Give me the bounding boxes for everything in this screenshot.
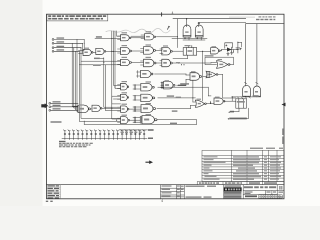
or gate G15 — [206, 71, 218, 78]
terminal pins — [63, 130, 145, 140]
number cells — [259, 195, 282, 198]
gate G20 — [141, 94, 155, 101]
label IN1 — [57, 37, 65, 38]
gate G22 — [92, 105, 102, 111]
wire can D lead — [256, 24, 258, 86]
faint pencil dash top — [229, 17, 255, 18]
diode cluster CR1 — [225, 43, 233, 52]
node G12 out — [205, 55, 214, 56]
capacitor can K1 — [183, 25, 191, 37]
wire G12 out — [205, 57, 234, 64]
wire speed signal — [247, 108, 249, 118]
wire G13 out — [155, 74, 191, 75]
wire G17 out long — [158, 87, 211, 96]
label L3 — [53, 108, 61, 109]
label +48V — [228, 111, 234, 113]
node G27 out — [210, 102, 211, 103]
wire bus verticals left — [72, 39, 120, 121]
relay top ticks — [237, 97, 250, 99]
label L1 — [53, 101, 61, 102]
gate G4 — [96, 48, 106, 54]
wire U1 feedback down — [173, 51, 203, 101]
node can leg 1 — [184, 38, 185, 39]
wire row A: G1 in — [95, 38, 121, 40]
gate G1 — [121, 35, 132, 41]
wire G2 out — [156, 19, 177, 48]
gate G8 — [211, 48, 221, 54]
gate G7 — [162, 47, 173, 54]
wire G28 out — [224, 97, 235, 101]
gate G24 — [141, 105, 156, 113]
gate G16 — [121, 84, 129, 90]
gate G13 — [141, 70, 154, 77]
node top rail junction — [186, 18, 187, 19]
or gate G12 — [217, 61, 231, 69]
label G24 out — [172, 110, 178, 111]
logo AMETEK dark box — [224, 187, 242, 191]
one-shot box U1 — [183, 46, 197, 56]
wire cans bottom rail — [232, 95, 260, 98]
label below strip right — [148, 138, 153, 140]
gate G10 — [144, 59, 157, 66]
ground sym 2 — [230, 52, 233, 55]
gate input stubs column1 — [118, 36, 121, 122]
wire G27 out — [206, 101, 214, 104]
tick can C lead — [245, 83, 247, 84]
logo sub rows — [224, 192, 241, 199]
number cell digits — [259, 196, 281, 198]
wire G26 out — [84, 120, 196, 125]
svg-text:4: 4 — [172, 11, 174, 15]
wire G23-G24 — [130, 106, 142, 111]
wire K1 top lead — [186, 19, 188, 27]
gate G5 — [121, 47, 132, 54]
title texts left section — [162, 185, 217, 197]
label L2 — [53, 105, 61, 106]
notes box text line 2 — [48, 18, 51, 20]
label row F b — [176, 97, 181, 98]
wire G6-G7 — [156, 49, 162, 51]
wire G21-G22 — [91, 108, 94, 110]
logo header dashes — [225, 185, 242, 187]
label IN2 — [57, 41, 65, 42]
label strip right — [148, 129, 154, 131]
right col vertical texts — [279, 186, 284, 198]
small comps below strip — [121, 132, 142, 135]
gate G27 — [195, 100, 206, 107]
svg-text:4: 4 — [161, 199, 163, 203]
right margin vertical text — [282, 129, 284, 145]
parts list table — [202, 150, 284, 181]
wire G20 out — [158, 80, 196, 102]
input terminal L2 — [49, 106, 78, 108]
node bottom rail — [232, 96, 233, 97]
node G22 out — [111, 108, 112, 109]
gate G2 — [145, 34, 156, 40]
wire y57.7 — [100, 57, 104, 59]
gate G19 — [121, 94, 129, 100]
gate input stubs column2 — [133, 35, 164, 100]
wire G1-G2 — [131, 36, 145, 38]
input terminal IN2 — [52, 42, 83, 44]
label SPEED SIGNAL — [228, 118, 247, 120]
node G4 out — [111, 51, 112, 52]
table qty col texts — [264, 156, 267, 180]
wire G4 out — [106, 50, 121, 52]
node can leg 2 — [197, 38, 198, 39]
input terminal IN1 — [52, 39, 84, 41]
gate G17 — [141, 83, 155, 90]
wire cluster links — [238, 42, 242, 48]
gate G28 — [214, 98, 225, 104]
wire bus mid verticals — [104, 31, 121, 119]
wire can C lead — [245, 24, 247, 86]
label IN3 — [57, 46, 65, 47]
gate G21 — [78, 105, 91, 112]
wire G22 out — [102, 107, 121, 109]
label G26 out — [170, 123, 177, 124]
right zone arrow — [282, 103, 286, 107]
gate G14 — [190, 73, 202, 80]
label IN4 — [57, 49, 65, 50]
title text — [244, 186, 276, 188]
gate labels row — [79, 31, 222, 116]
border frame — [47, 14, 285, 199]
dash near row C — [176, 62, 180, 63]
gate G6 — [144, 47, 156, 54]
title block — [161, 185, 284, 199]
input terminal L3 — [49, 109, 78, 111]
wire G14-G15 — [203, 76, 206, 78]
node cluster — [237, 42, 238, 43]
wire right rail — [246, 23, 284, 25]
wire G11 out to G12 — [173, 62, 217, 64]
terminal strip rail — [62, 137, 147, 139]
wire G9-G10 — [132, 62, 144, 64]
input terminal IN4 — [52, 50, 79, 52]
gate G26 — [140, 116, 157, 124]
capacitor can K2 — [195, 25, 203, 37]
relay block RL1 — [236, 99, 247, 108]
label row F — [167, 95, 174, 96]
tick can D lead — [256, 83, 258, 84]
drawing number text — [245, 195, 257, 197]
wire G8 out — [221, 50, 222, 51]
table cell texts — [204, 156, 282, 180]
input terminal IN3 — [52, 47, 81, 49]
transistor can Q2 — [253, 86, 260, 96]
gate G9 — [121, 59, 132, 65]
wire +48V — [234, 108, 239, 111]
wire row C label — [93, 64, 101, 66]
wire K2 top lead — [199, 23, 246, 27]
wire G3-G4 — [93, 51, 96, 53]
gate G25 — [121, 117, 130, 124]
scale row texts — [245, 191, 277, 194]
microfilm dash 1 — [46, 201, 48, 202]
notes box text line 1 — [48, 15, 51, 17]
wire G25-G26 — [130, 117, 140, 123]
wire G18 out — [177, 79, 190, 85]
wire G15 out — [218, 75, 236, 99]
junction dots misc — [81, 36, 194, 120]
wire G5-G6 — [132, 50, 144, 52]
wire G7-U1 — [173, 50, 184, 52]
node K2 top circle — [198, 22, 200, 24]
wire can legs rail — [172, 37, 207, 40]
gate G23 — [121, 106, 130, 112]
gate G18 — [162, 81, 175, 88]
title strip top line — [47, 184, 285, 186]
capacitor C2 — [236, 42, 240, 53]
label 2SV — [253, 95, 259, 97]
table header text above — [250, 148, 283, 149]
gate G11 — [162, 59, 173, 66]
microfilm dash 2 — [50, 201, 52, 202]
label G17 out — [178, 85, 186, 86]
input terminal L1 — [49, 102, 78, 104]
ground sym 1 — [227, 52, 230, 55]
approval row under table — [197, 182, 284, 185]
zone tick top frame — [161, 13, 163, 16]
notes box top-left — [47, 14, 108, 21]
label L4 — [51, 121, 62, 123]
left zone arrow — [41, 103, 48, 108]
revision note line 1 (top right) — [259, 16, 262, 17]
gate G3 — [83, 49, 93, 55]
microfilm center arrow — [146, 160, 153, 164]
transistor can Q1 — [243, 85, 251, 96]
wire row B label — [94, 58, 100, 60]
label row A wire — [96, 36, 102, 38]
stamp block bottom-left — [47, 185, 61, 199]
wire G3 in stubs — [79, 50, 84, 53]
revision note line 2 — [256, 19, 260, 20]
node U1 out — [202, 51, 203, 52]
pencil check mark — [168, 26, 170, 29]
notes block bottom-left — [59, 141, 93, 148]
pencil squiggle — [106, 29, 170, 33]
wire U1-G8 — [197, 50, 211, 52]
label G18 wire — [180, 83, 189, 84]
terminal strip top wire — [119, 129, 148, 131]
wire top rail — [173, 18, 246, 20]
wire G24 out — [157, 105, 196, 108]
wire G10-G11 — [156, 62, 162, 64]
capacitor C1 — [222, 50, 238, 52]
